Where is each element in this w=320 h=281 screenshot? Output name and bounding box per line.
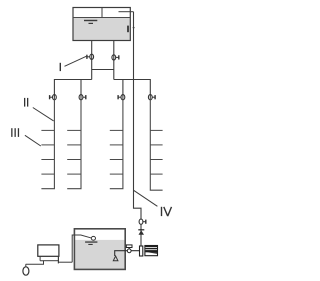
lower tank water fill <box>75 240 124 269</box>
leader I <box>65 56 87 66</box>
label III <box>11 128 19 137</box>
label I <box>60 63 61 71</box>
left manifold <box>54 80 91 98</box>
upper tank internal partition <box>101 8 103 18</box>
check valve triangle <box>139 230 145 235</box>
pump <box>140 246 143 256</box>
wire run to float pipe <box>58 261 72 263</box>
valve II-3 <box>118 95 125 100</box>
counterweight stem <box>25 264 27 267</box>
valve II-1 <box>50 95 57 100</box>
upper tank outlet bar on right wall <box>127 26 129 33</box>
float ball <box>91 236 95 240</box>
field pipe 1 with laterals <box>41 97 54 189</box>
drop pipe to valve II-3 <box>122 80 124 98</box>
lower tank level mark short dash <box>88 244 92 245</box>
leader III <box>25 135 41 146</box>
check valve bar <box>138 229 144 231</box>
leader IV <box>134 190 158 206</box>
valve II-4 <box>148 95 155 100</box>
motor <box>145 246 158 256</box>
valve II-2 <box>79 95 86 100</box>
cross connector between main pipes <box>92 69 114 71</box>
control box right stem <box>57 256 59 263</box>
left main pipe <box>91 41 93 80</box>
field pipe 3 with laterals <box>110 97 123 189</box>
riser pipe from pump to tank (IV) <box>134 12 142 219</box>
valve I-right on right main pipe <box>112 55 119 60</box>
right manifold <box>114 80 151 98</box>
discharge pipe valve-to-pump <box>140 224 142 246</box>
lower tank shell <box>74 229 125 270</box>
float lever arm <box>74 235 92 238</box>
label II <box>24 98 28 107</box>
junction dot on riser <box>133 27 135 29</box>
float switch control box <box>38 245 59 256</box>
wire from counterweight to box stem <box>26 261 44 265</box>
drop pipe to valve II-2 <box>80 80 82 98</box>
upper tank shell <box>73 8 130 41</box>
upper tank water level mark short dash <box>89 23 94 24</box>
inlet pipe into upper tank <box>119 11 134 13</box>
label IV <box>161 207 172 216</box>
upper tank water surface line <box>73 17 130 19</box>
leader II <box>33 108 54 121</box>
counterweight ball <box>23 267 29 275</box>
lower tank level mark long dash <box>85 241 97 242</box>
upper tank water fill <box>74 18 130 41</box>
upper tank water level mark long dash <box>84 20 97 21</box>
wire from box stem to right stem <box>44 260 59 262</box>
field pipe 4 with laterals <box>150 97 162 190</box>
field pipe 2 with laterals <box>67 97 81 189</box>
discharge valve above pump <box>139 219 146 224</box>
right main pipe <box>113 41 115 80</box>
wire from control box down left stem <box>39 256 41 260</box>
valve I-left on left main pipe <box>87 54 94 59</box>
float linkage pipe up into tank <box>72 235 74 262</box>
suction pipe with foot strainer <box>113 251 139 261</box>
vacuum gauge on suction line <box>126 245 132 253</box>
